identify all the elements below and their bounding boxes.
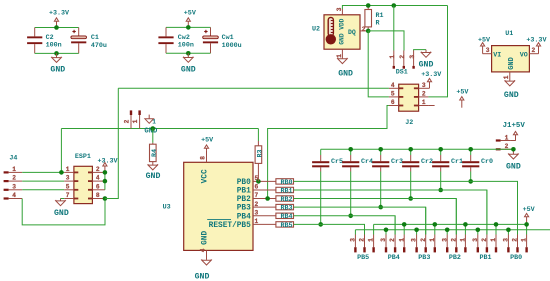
wire bbox=[294, 181, 518, 234]
svg-text:PB3: PB3 bbox=[418, 254, 430, 262]
PB0 pin 3 bbox=[507, 235, 509, 248]
resistor RB4 bbox=[276, 213, 294, 218]
svg-text:GND: GND bbox=[146, 172, 161, 181]
PB5 pin 1 bbox=[373, 235, 375, 248]
U3 pin 6 lead bbox=[253, 189, 276, 191]
svg-text:100n: 100n bbox=[178, 42, 194, 50]
PB1 pin 3 bbox=[477, 235, 479, 248]
node junction bbox=[186, 51, 191, 56]
svg-text:1: 1 bbox=[336, 54, 343, 58]
svg-text:2: 2 bbox=[96, 166, 100, 173]
node junction bbox=[402, 222, 407, 227]
svg-text:GND: GND bbox=[181, 65, 196, 74]
svg-text:GND: GND bbox=[506, 163, 521, 172]
ground at J1 pin2 bbox=[512, 149, 514, 154]
wire J2 pin6 bbox=[268, 106, 389, 199]
resistor R4 bbox=[152, 129, 154, 143]
ESP1 left pin 5 bbox=[64, 189, 74, 191]
PB0 pin 2 bbox=[517, 235, 519, 248]
resistor R3 bbox=[257, 129, 259, 142]
wire bbox=[166, 52, 211, 54]
svg-text:1000u: 1000u bbox=[222, 42, 242, 50]
PB5 pin 3 bbox=[354, 235, 356, 248]
wire bbox=[385, 230, 387, 235]
svg-text:R: R bbox=[376, 19, 380, 27]
U1 pin 2 VO bbox=[529, 53, 538, 55]
svg-text:RB1: RB1 bbox=[280, 187, 292, 195]
power +5V (cap group 2) bbox=[187, 21, 189, 27]
svg-text:1: 1 bbox=[521, 238, 528, 242]
PB3 pin 3 bbox=[416, 235, 418, 248]
svg-text:1: 1 bbox=[503, 75, 510, 79]
wire bbox=[320, 172, 322, 225]
svg-text:3: 3 bbox=[255, 210, 259, 217]
U3 pin 8 VCC bbox=[206, 150, 208, 162]
svg-text:RB4: RB4 bbox=[280, 213, 292, 221]
svg-text:1: 1 bbox=[368, 238, 375, 242]
svg-text:3: 3 bbox=[12, 183, 16, 190]
svg-text:GND: GND bbox=[195, 273, 210, 281]
svg-text:6: 6 bbox=[255, 184, 259, 191]
svg-text:PB4: PB4 bbox=[237, 213, 251, 221]
node junction bus bbox=[348, 147, 353, 152]
svg-text:ESP1: ESP1 bbox=[75, 153, 91, 161]
PB1 pin 1 bbox=[495, 235, 497, 248]
node junction bbox=[414, 228, 419, 233]
wire J4.2 to ESP1.3 bbox=[22, 180, 64, 182]
node junction J2.6/PB2 bbox=[265, 196, 270, 201]
svg-text:5: 5 bbox=[66, 183, 70, 190]
svg-text:3: 3 bbox=[409, 55, 416, 59]
wire DQ to DS1 pin2 bbox=[368, 31, 404, 51]
svg-text:5: 5 bbox=[391, 91, 395, 98]
wire bbox=[403, 224, 405, 234]
node junction bbox=[524, 222, 529, 227]
svg-text:1: 1 bbox=[132, 119, 139, 123]
wire bbox=[440, 172, 442, 191]
svg-text:2: 2 bbox=[420, 238, 427, 242]
node junction bbox=[408, 196, 413, 201]
power +5V at J1 pin1 bbox=[510, 140, 515, 142]
svg-text:GND: GND bbox=[50, 65, 65, 74]
capacitor Cr4 bbox=[350, 149, 352, 155]
svg-text:PB1: PB1 bbox=[237, 188, 251, 196]
svg-text:PB5: PB5 bbox=[357, 254, 369, 262]
node junction bbox=[378, 205, 383, 210]
node junction bbox=[186, 25, 191, 30]
U3 pin 7 lead bbox=[253, 198, 276, 200]
ESP1 right pin 6 bbox=[92, 189, 105, 191]
svg-text:3: 3 bbox=[472, 238, 479, 242]
J4 pin 1 bbox=[4, 171, 9, 173]
ground bbox=[187, 53, 189, 57]
node junction bbox=[445, 228, 450, 233]
ground bbox=[509, 80, 511, 82]
svg-text:1: 1 bbox=[505, 134, 509, 141]
U3 pin 5 lead bbox=[253, 180, 276, 182]
node junction DQ bbox=[366, 29, 371, 34]
wire J4.1 to ESP1.1 bbox=[22, 171, 64, 173]
wire bbox=[394, 216, 396, 235]
wire J4.4 loop to ESP1.8 bbox=[22, 199, 105, 225]
svg-text:RESET/PB5: RESET/PB5 bbox=[209, 222, 251, 230]
PB1 pin 2 bbox=[486, 235, 488, 248]
svg-text:6: 6 bbox=[96, 183, 100, 190]
J1 pin 2 bbox=[496, 148, 501, 150]
svg-text:R4: R4 bbox=[151, 149, 159, 157]
ESP1 left pin 7 bbox=[64, 198, 74, 200]
J4 pin 3 bbox=[4, 189, 9, 191]
wire bbox=[526, 224, 528, 234]
svg-text:GND: GND bbox=[504, 91, 519, 100]
node junction ESP1.2 bbox=[103, 170, 108, 175]
svg-text:2: 2 bbox=[481, 238, 488, 242]
svg-text:3: 3 bbox=[441, 238, 448, 242]
wire common rail bottom bbox=[355, 229, 550, 231]
capacitor C2 bbox=[34, 28, 36, 37]
capacitor Cr1 bbox=[440, 149, 442, 155]
svg-text:VO: VO bbox=[520, 52, 528, 60]
ground bbox=[425, 50, 427, 53]
wire bbox=[425, 207, 427, 234]
wire GND net bbox=[61, 128, 258, 130]
connector pin 1 (top) bbox=[138, 110, 140, 115]
ground symbol at wire bbox=[148, 115, 150, 119]
svg-text:+3.3V: +3.3V bbox=[421, 71, 441, 79]
ESP1 right pin 2 bbox=[92, 171, 105, 173]
svg-text:Cr2: Cr2 bbox=[421, 158, 433, 166]
PB4 pin 2 bbox=[394, 235, 396, 248]
wire bbox=[350, 172, 352, 216]
svg-text:GND: GND bbox=[508, 57, 516, 70]
wire bbox=[294, 190, 487, 235]
PB0 pin 1 bbox=[526, 235, 528, 248]
svg-text:U2: U2 bbox=[312, 26, 320, 34]
resistor RB0 bbox=[276, 179, 294, 184]
ground bbox=[152, 164, 154, 166]
capacitor CW2 bbox=[165, 27, 167, 36]
svg-text:4: 4 bbox=[96, 175, 100, 182]
svg-text:1: 1 bbox=[460, 238, 467, 242]
U3 pin 1 lead bbox=[253, 223, 276, 225]
J4 pin 4 bbox=[4, 197, 9, 199]
svg-text:1: 1 bbox=[152, 118, 156, 125]
svg-text:2: 2 bbox=[450, 238, 457, 242]
wire bbox=[380, 172, 382, 208]
svg-text:2: 2 bbox=[123, 119, 130, 123]
svg-text:Cr1: Cr1 bbox=[451, 158, 463, 166]
capacitor CW1 bbox=[210, 27, 212, 36]
svg-text:RB2: RB2 bbox=[280, 196, 292, 204]
resistor RB5 bbox=[276, 222, 294, 227]
svg-text:470u: 470u bbox=[91, 42, 107, 50]
node junction bbox=[318, 222, 323, 227]
svg-text:3: 3 bbox=[336, 7, 343, 11]
wire bbox=[166, 26, 211, 28]
node junction bbox=[348, 214, 353, 219]
capacitor Cr2 bbox=[410, 149, 412, 155]
node junction bbox=[506, 228, 511, 233]
resistor RB3 bbox=[276, 204, 294, 209]
svg-text:R3: R3 bbox=[257, 149, 265, 157]
wire +5V rail bbox=[342, 6, 447, 10]
svg-text:+5V: +5V bbox=[184, 9, 196, 17]
svg-text:J2: J2 bbox=[405, 119, 413, 127]
svg-text:PB0: PB0 bbox=[237, 179, 251, 187]
svg-text:2: 2 bbox=[512, 238, 519, 242]
mcu U3 bbox=[184, 162, 253, 250]
svg-text:U3: U3 bbox=[163, 204, 171, 212]
svg-text:+5V: +5V bbox=[523, 206, 535, 214]
svg-text:+5V: +5V bbox=[201, 136, 213, 144]
node junction ESP1.8 bbox=[103, 196, 108, 201]
svg-text:+3.3V: +3.3V bbox=[98, 157, 118, 165]
wire J2 pin4 long bbox=[118, 87, 389, 89]
svg-text:8: 8 bbox=[96, 192, 100, 199]
wire GND down to ESP1.1 bbox=[60, 129, 62, 173]
ground bbox=[341, 57, 343, 60]
svg-text:PB4: PB4 bbox=[388, 254, 400, 262]
svg-text:RB3: RB3 bbox=[280, 205, 292, 213]
J1 pin 1 bbox=[496, 139, 501, 141]
PB4 pin 1 bbox=[403, 235, 405, 248]
svg-text:2: 2 bbox=[359, 238, 366, 242]
wire bbox=[446, 230, 448, 235]
U1 pin 3 VI bbox=[483, 53, 492, 55]
svg-text:VCC: VCC bbox=[201, 169, 209, 183]
ESP1 left pin 1 bbox=[64, 171, 74, 173]
svg-text:3: 3 bbox=[486, 47, 490, 54]
temp sensor U2 bbox=[324, 15, 360, 49]
svg-text:DQ: DQ bbox=[348, 29, 356, 36]
svg-text:2: 2 bbox=[399, 55, 406, 59]
ESP1 right pin 4 bbox=[92, 180, 105, 182]
wire GND bus bbox=[321, 148, 514, 150]
wire bbox=[434, 224, 436, 234]
capacitor Cr0 bbox=[470, 149, 472, 155]
node junction bbox=[476, 228, 481, 233]
wire bbox=[294, 199, 457, 235]
wire bbox=[464, 224, 466, 234]
capacitor C1 bbox=[78, 28, 80, 36]
U2 pin 3 VDD stub bbox=[341, 9, 343, 15]
wire +5V rail bottom bbox=[374, 223, 527, 225]
svg-text:3: 3 bbox=[503, 238, 510, 242]
PB2 pin 2 bbox=[455, 235, 457, 248]
wire rail to DS1 pin1 bbox=[393, 6, 395, 51]
svg-text:RB0: RB0 bbox=[280, 179, 292, 187]
svg-text:1: 1 bbox=[490, 238, 497, 242]
PB3 pin 1 bbox=[434, 235, 436, 248]
capacitor Cr3 bbox=[380, 149, 382, 155]
node junction R3/PB0 bbox=[256, 179, 261, 184]
wire bbox=[373, 224, 375, 234]
wire bbox=[486, 190, 488, 235]
wire bbox=[470, 172, 472, 182]
svg-text:3: 3 bbox=[66, 175, 70, 182]
svg-text:GND VDD: GND VDD bbox=[338, 18, 345, 44]
svg-text:1: 1 bbox=[429, 238, 436, 242]
svg-text:4: 4 bbox=[12, 192, 16, 199]
U3 pin 3 lead bbox=[253, 215, 276, 217]
PB5 pin 2 bbox=[364, 235, 366, 248]
J2 left pins 4,5,6 bbox=[389, 87, 399, 89]
node junction bbox=[384, 228, 389, 233]
wire bbox=[507, 230, 509, 235]
node junction rail/R1 bbox=[366, 3, 371, 8]
U2 pin 1 GND stub bbox=[341, 49, 343, 58]
PB2 pin 1 bbox=[464, 235, 466, 248]
svg-text:1: 1 bbox=[398, 238, 405, 242]
U1 pin 1 GND bbox=[509, 72, 511, 81]
svg-text:RB5: RB5 bbox=[280, 222, 292, 230]
wire DQ to J2 pin5 bbox=[368, 31, 389, 97]
J2 right pins 3,2,1 bbox=[419, 87, 430, 89]
svg-text:PB2: PB2 bbox=[237, 196, 251, 204]
svg-text:J1+5V: J1+5V bbox=[503, 122, 526, 130]
PB4 pin 3 bbox=[385, 235, 387, 248]
wire bbox=[294, 216, 396, 235]
node junction bbox=[494, 222, 499, 227]
svg-text:J4: J4 bbox=[9, 155, 17, 163]
connector DS1 bbox=[393, 51, 395, 66]
svg-text:100n: 100n bbox=[46, 42, 62, 50]
resistor RB2 bbox=[276, 196, 294, 201]
wire bbox=[35, 27, 79, 29]
resistor R1 bbox=[367, 6, 369, 10]
svg-text:3: 3 bbox=[422, 82, 426, 89]
wire bbox=[495, 224, 497, 234]
wire J4.3 to ESP1.5 bbox=[22, 189, 64, 191]
U3 pin 2 lead bbox=[253, 206, 276, 208]
node junction ESP1.1 bbox=[59, 170, 64, 175]
node junction bbox=[468, 179, 473, 184]
node junction bbox=[463, 222, 468, 227]
wire ESP1.8 right and up bbox=[105, 88, 118, 198]
node junction bbox=[433, 222, 438, 227]
wire bbox=[364, 224, 366, 234]
svg-text:VI: VI bbox=[493, 52, 501, 60]
PB3 pin 2 bbox=[425, 235, 427, 248]
svg-text:GND: GND bbox=[419, 61, 434, 70]
U2 pin 2 DQ lead bbox=[360, 30, 368, 32]
node junction bbox=[54, 51, 59, 56]
svg-text:4: 4 bbox=[391, 82, 395, 89]
wire bbox=[517, 181, 519, 234]
svg-text:+5V: +5V bbox=[456, 88, 468, 96]
svg-text:GND: GND bbox=[201, 231, 209, 245]
svg-text:1: 1 bbox=[389, 55, 396, 59]
node junction bus bbox=[378, 147, 383, 152]
node junction bus bbox=[468, 147, 473, 152]
svg-text:+3.3V: +3.3V bbox=[49, 9, 69, 17]
svg-text:7: 7 bbox=[66, 192, 70, 199]
svg-text:Cr5: Cr5 bbox=[331, 158, 343, 166]
svg-text:8: 8 bbox=[200, 156, 207, 160]
capacitor Cr5 bbox=[320, 149, 322, 155]
ground bbox=[206, 259, 208, 262]
svg-text:3: 3 bbox=[411, 238, 418, 242]
ground bbox=[56, 53, 58, 57]
node junction bus bbox=[438, 147, 443, 152]
svg-text:4: 4 bbox=[200, 248, 207, 252]
PB2 pin 3 bbox=[446, 235, 448, 248]
wire bbox=[354, 230, 356, 235]
svg-text:2: 2 bbox=[422, 91, 426, 98]
connector pin 2 (top) bbox=[130, 110, 132, 115]
resistor RB1 bbox=[276, 187, 294, 192]
svg-text:U1: U1 bbox=[505, 30, 513, 38]
svg-text:DS1: DS1 bbox=[396, 69, 408, 77]
svg-text:PB3: PB3 bbox=[237, 205, 251, 213]
wire bbox=[410, 172, 412, 199]
node junction bus bbox=[408, 147, 413, 152]
svg-text:1: 1 bbox=[422, 99, 426, 106]
svg-text:Cr4: Cr4 bbox=[361, 158, 373, 166]
svg-text:3: 3 bbox=[350, 238, 357, 242]
svg-text:Cr3: Cr3 bbox=[391, 158, 403, 166]
svg-text:GND: GND bbox=[54, 209, 69, 218]
svg-text:6: 6 bbox=[391, 99, 395, 106]
wire bbox=[477, 230, 479, 235]
svg-text:PB2: PB2 bbox=[449, 254, 461, 262]
wire DS1 pin3 to GND bbox=[414, 49, 426, 52]
U3 pin 4 GND bbox=[206, 250, 208, 259]
svg-text:2: 2 bbox=[255, 201, 259, 208]
svg-text:1: 1 bbox=[255, 218, 259, 225]
svg-text:2: 2 bbox=[12, 175, 16, 182]
svg-text:PB0: PB0 bbox=[510, 254, 522, 262]
ESP1 right pin 8 bbox=[92, 198, 105, 200]
svg-text:1: 1 bbox=[66, 166, 70, 173]
svg-text:2: 2 bbox=[389, 238, 396, 242]
ESP1 pin 7 to ground bbox=[61, 198, 65, 200]
power +3.3V (cap group 1) bbox=[56, 21, 58, 27]
wire ESP1 pins 2-4-6 bbox=[104, 172, 106, 189]
svg-text:GND: GND bbox=[338, 70, 353, 79]
node junction bus/J1 bbox=[511, 147, 516, 152]
svg-text:3: 3 bbox=[380, 238, 387, 242]
wire bbox=[416, 230, 418, 235]
ESP1 left pin 3 bbox=[64, 180, 74, 182]
svg-text:PB1: PB1 bbox=[480, 254, 492, 262]
wire J2 pin2 to +5V rail bbox=[428, 6, 447, 97]
node junction bbox=[54, 25, 59, 30]
node junction GND/R4 bbox=[151, 126, 156, 131]
J4 pin 2 bbox=[4, 180, 9, 182]
svg-text:7: 7 bbox=[255, 192, 259, 199]
svg-text:1: 1 bbox=[12, 166, 16, 173]
wire bbox=[294, 224, 365, 234]
wire bbox=[35, 52, 79, 54]
svg-text:+3.3V: +3.3V bbox=[526, 37, 546, 45]
svg-text:+5V: +5V bbox=[478, 37, 490, 45]
node junction rail/DS1 bbox=[392, 3, 397, 8]
connector J2 bbox=[399, 84, 419, 111]
svg-text:Cr0: Cr0 bbox=[481, 158, 493, 166]
svg-text:2: 2 bbox=[532, 47, 536, 54]
wire bbox=[294, 207, 426, 234]
node junction bbox=[438, 188, 443, 193]
wire bbox=[455, 199, 457, 235]
node junction ESP1.4 bbox=[103, 179, 108, 184]
